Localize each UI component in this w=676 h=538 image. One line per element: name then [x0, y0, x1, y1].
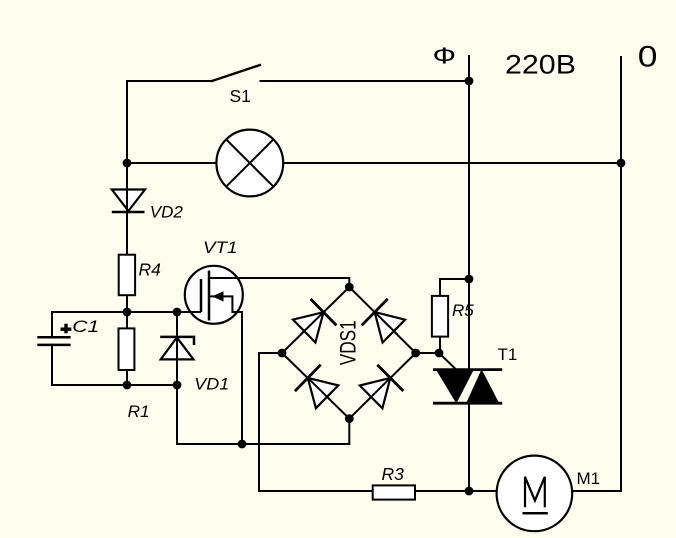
wire lamp-row-left	[127, 162, 216, 164]
VT1 source wire	[209, 296, 242, 444]
svg-text:0: 0	[638, 40, 658, 73]
triac T1	[433, 370, 502, 404]
node triac gate	[435, 349, 444, 358]
bridge edge L-T	[282, 287, 349, 353]
wire bridge-right-out	[416, 352, 439, 354]
wire node-to-motor	[469, 490, 497, 492]
svg-text:S1: S1	[230, 86, 251, 106]
node bridge left	[278, 349, 287, 358]
node R5 top	[465, 275, 474, 284]
bridge edge R-B	[349, 353, 415, 419]
svg-text:C1: C1	[72, 317, 99, 336]
node VD1 bottom	[173, 381, 182, 390]
zener diode VD1	[160, 337, 194, 360]
svg-text:R4: R4	[139, 259, 162, 279]
wire switch-row-right	[261, 80, 470, 82]
svg-text:VDS1: VDS1	[335, 320, 360, 365]
node switch/phase	[465, 77, 474, 86]
bridge diode D3 (bottom-left)	[295, 365, 338, 409]
node bridge top	[345, 283, 354, 292]
node R1 bottom	[123, 381, 132, 390]
svg-text:T1: T1	[498, 345, 518, 364]
wire R4-to-toprow	[126, 295, 128, 312]
capacitor C1	[37, 337, 70, 345]
switch S1 blade	[212, 65, 260, 81]
resistor R5	[432, 296, 448, 337]
wire R5-top-branch	[440, 279, 469, 296]
wire zero-to-motor	[572, 490, 621, 492]
wire bottom-R3-left	[259, 490, 373, 492]
wire bottom-row	[52, 384, 177, 386]
node gate/VD1 top	[173, 308, 182, 317]
VT1 gate wire inside	[186, 311, 201, 313]
wire left-vertical-top	[126, 81, 128, 163]
svg-text:VD1: VD1	[194, 375, 229, 394]
bridge diode D1 (left-top)	[293, 299, 336, 343]
wire drain	[209, 278, 349, 287]
wire zero-line	[620, 57, 622, 491]
wire source-row	[177, 443, 349, 445]
VT1 drain stub	[209, 277, 243, 279]
bridge diode D4 (bottom-right)	[360, 365, 404, 409]
wire bridge-left-out	[259, 353, 282, 491]
wire bridge-bottom-drop	[348, 419, 350, 444]
svg-text:VD2: VD2	[150, 203, 184, 222]
resistor R4	[119, 255, 135, 296]
node bridge bottom	[345, 414, 354, 423]
wire R5-bottom	[439, 337, 441, 353]
node lamp-left	[123, 159, 132, 168]
svg-text:M1: M1	[577, 469, 601, 488]
wire R3-to-node	[415, 490, 469, 492]
wire phase-line lower	[468, 403, 470, 491]
bridge edge B-L	[282, 353, 349, 419]
svg-text:R3: R3	[382, 464, 405, 484]
lamp HL	[216, 130, 283, 197]
VT1 source arrow	[212, 291, 224, 301]
wire R1-top	[126, 312, 128, 328]
svg-text:Ф: Ф	[433, 42, 457, 68]
bridge diode D2 (right-top)	[362, 299, 405, 343]
wire switch-row-left	[127, 80, 212, 82]
wire phase-line upper	[468, 56, 470, 370]
node lamp-right/zero	[617, 159, 626, 168]
wire C1-left-upper	[51, 312, 53, 337]
bridge edge T-R	[349, 287, 415, 353]
wire lamp-row-right	[283, 162, 621, 164]
node R4/R1 top	[123, 308, 132, 317]
resistor R3	[373, 485, 415, 499]
wire R1-bottom	[126, 370, 128, 385]
svg-text:220В: 220В	[505, 50, 576, 80]
node bridge right	[411, 349, 420, 358]
transistor VT1 (MOSFET)	[185, 266, 243, 444]
wire lamp-to-R4 through VD2	[126, 163, 128, 255]
node source row	[238, 440, 247, 449]
C1 plus sign	[61, 324, 72, 334]
diode bridge VDS1	[282, 287, 416, 419]
wire top-row	[52, 311, 201, 313]
diode VD2	[112, 190, 145, 213]
motor M1	[497, 456, 573, 532]
svg-text:VT1: VT1	[203, 238, 238, 257]
VT1 channel bar	[208, 271, 211, 321]
resistor R1	[119, 328, 135, 370]
wire VD1-branch	[176, 312, 178, 444]
svg-text:R5: R5	[452, 301, 474, 320]
wire C1-left-lower	[51, 345, 53, 385]
svg-text:R1: R1	[128, 403, 150, 421]
VT1 gate bar	[200, 279, 203, 312]
node motor/triac	[465, 487, 474, 496]
wire triac-gate	[439, 353, 457, 370]
